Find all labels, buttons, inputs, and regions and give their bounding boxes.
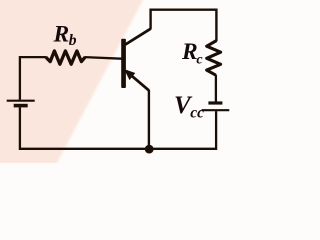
transistor Q1 (PNP) bbox=[121, 29, 151, 91]
wire: emitter riser bbox=[148, 90, 150, 148]
battery Vcc short plate bbox=[208, 101, 222, 104]
battery B1 short plate bbox=[14, 104, 28, 108]
resistor R_b bbox=[46, 51, 85, 64]
battery Vcc long plate bbox=[202, 109, 230, 111]
wire: left rail bottom + bottom wire left bbox=[20, 107, 148, 148]
resistor R_c bbox=[207, 41, 221, 76]
transistor Q1 collector lead bbox=[125, 29, 151, 45]
battery B1 long plate bbox=[7, 100, 35, 102]
junction node bbox=[145, 145, 154, 154]
wire: bottom wire right + right rail bottom bbox=[148, 111, 216, 149]
transistor Q1 emitter arrow bbox=[124, 69, 135, 80]
wire: collector riser + top wire + right rail top bbox=[151, 10, 217, 42]
transistor Q1 emitter lead bbox=[126, 71, 149, 91]
transistor Q1 base bar bbox=[121, 39, 126, 88]
wire: right rail mid bbox=[215, 75, 217, 102]
wire: left rail top + top-left corner bbox=[20, 57, 47, 100]
wire: base lead bbox=[85, 57, 122, 59]
